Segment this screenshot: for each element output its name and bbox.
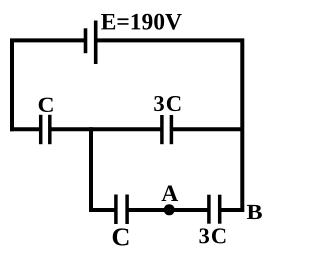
label E=190V — [101, 14, 182, 30]
capacitor C (bottom) right plate — [125, 195, 129, 225]
label B (node) — [247, 205, 262, 219]
capacitor 3C (middle) left plate — [160, 115, 164, 144]
wire: middle branch right segment — [171, 127, 242, 131]
wire: top-left segment and left vertical side — [12, 40, 86, 131]
label C (middle left capacitor) — [39, 98, 53, 112]
label 3C (bottom capacitor) — [199, 228, 225, 243]
wire: bottom branch center segment — [127, 208, 209, 212]
wire: top-right segment, right vertical side, bottom-right corner — [96, 40, 243, 210]
label A (node) — [162, 186, 179, 202]
battery E1 short plate (negative) — [84, 28, 88, 53]
capacitor 3C (middle) right plate — [170, 115, 174, 144]
capacitor C (bottom) left plate — [114, 195, 118, 225]
label C (bottom capacitor) — [113, 228, 129, 245]
capacitor 3C (bottom) left plate — [207, 195, 211, 224]
node A junction dot — [164, 204, 175, 215]
battery E1 long plate (positive) — [94, 21, 98, 65]
capacitor C (middle left) left plate — [39, 115, 43, 144]
capacitor 3C (bottom) right plate — [218, 195, 222, 224]
wire: vertical branch down from middle wire, bottom-left corner — [91, 127, 116, 210]
label 3C (middle capacitor) — [154, 96, 180, 111]
wire: middle branch left segment — [10, 127, 41, 131]
capacitor C (middle left) right plate — [48, 115, 52, 144]
wire: middle branch center segment — [50, 127, 162, 131]
